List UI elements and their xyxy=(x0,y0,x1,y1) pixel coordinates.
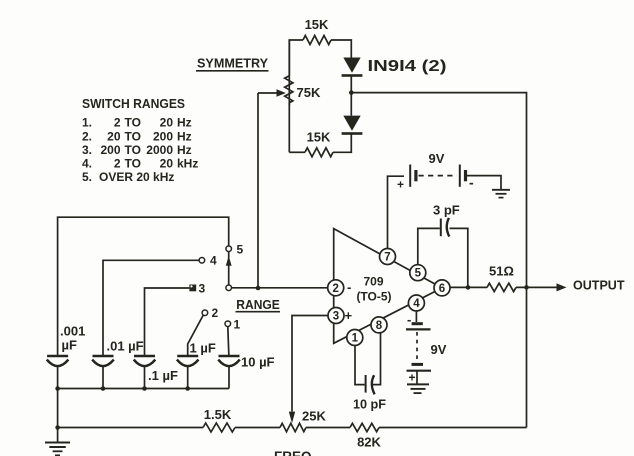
svg-text:200: 200 xyxy=(100,143,120,157)
svg-text:20: 20 xyxy=(160,157,174,171)
svg-text:3.: 3. xyxy=(82,143,92,157)
svg-text:-: - xyxy=(407,312,411,327)
svg-text:(TO-5): (TO-5) xyxy=(356,290,391,304)
svg-text:FREQ: FREQ xyxy=(274,449,312,456)
svg-text:2: 2 xyxy=(212,306,219,320)
svg-text:OVER 20 kHz: OVER 20 kHz xyxy=(99,170,174,184)
svg-text:1.: 1. xyxy=(82,116,92,130)
svg-text:.001: .001 xyxy=(60,324,85,339)
svg-text:7: 7 xyxy=(384,252,390,264)
svg-text:TO: TO xyxy=(125,143,141,157)
svg-text:SYMMETRY: SYMMETRY xyxy=(197,57,269,71)
svg-text:6: 6 xyxy=(439,283,445,295)
svg-text:-: - xyxy=(347,280,351,295)
svg-text:5: 5 xyxy=(415,268,422,280)
svg-text:4: 4 xyxy=(210,254,217,268)
svg-text:2: 2 xyxy=(114,157,121,171)
svg-text:SWITCH RANGES: SWITCH RANGES xyxy=(82,97,185,111)
svg-text:TO: TO xyxy=(125,130,141,144)
svg-text:TO: TO xyxy=(125,116,141,130)
svg-text:µF: µF xyxy=(62,338,77,353)
svg-text:4.: 4. xyxy=(82,157,92,171)
svg-text:2000: 2000 xyxy=(146,143,173,157)
svg-text:9V: 9V xyxy=(431,342,447,357)
svg-text:15K: 15K xyxy=(307,129,331,144)
svg-text:200: 200 xyxy=(153,130,173,144)
svg-text:2.: 2. xyxy=(82,130,92,144)
svg-text:Hz: Hz xyxy=(177,130,192,144)
svg-text:OUTPUT: OUTPUT xyxy=(573,279,625,293)
svg-text:82K: 82K xyxy=(357,435,381,450)
svg-text:+: + xyxy=(397,178,404,192)
svg-text:1.5K: 1.5K xyxy=(204,407,232,422)
svg-text:-: - xyxy=(469,175,474,191)
svg-text:1: 1 xyxy=(234,318,241,332)
svg-text:TO: TO xyxy=(125,157,141,171)
svg-text:2: 2 xyxy=(114,116,121,130)
svg-text:+: + xyxy=(409,371,416,385)
svg-text:3 pF: 3 pF xyxy=(433,203,460,218)
svg-text:1 µF: 1 µF xyxy=(190,341,216,356)
svg-text:Hz: Hz xyxy=(177,116,192,130)
svg-text:15K: 15K xyxy=(305,17,329,32)
svg-text:10 µF: 10 µF xyxy=(241,355,275,370)
svg-text:1: 1 xyxy=(352,333,359,345)
svg-text:3: 3 xyxy=(333,311,339,323)
svg-text:9V: 9V xyxy=(429,151,445,166)
svg-text:4: 4 xyxy=(413,298,420,310)
svg-text:2: 2 xyxy=(332,283,338,295)
svg-text:3: 3 xyxy=(199,282,206,296)
svg-text:51Ω: 51Ω xyxy=(489,264,514,279)
svg-text:kHz: kHz xyxy=(177,157,198,171)
svg-text:75K: 75K xyxy=(297,85,321,100)
svg-text:.1 µF: .1 µF xyxy=(148,368,178,383)
svg-text:709: 709 xyxy=(363,275,383,289)
svg-text:Hz: Hz xyxy=(177,143,192,157)
svg-text:8: 8 xyxy=(376,320,383,332)
svg-text:IN9I4 (2): IN9I4 (2) xyxy=(368,58,447,75)
svg-text:20: 20 xyxy=(160,116,174,130)
svg-text:.01 µF: .01 µF xyxy=(107,339,144,354)
svg-text:+: + xyxy=(345,308,353,323)
svg-text:RANGE: RANGE xyxy=(236,297,280,312)
svg-text:25K: 25K xyxy=(302,409,326,424)
svg-text:20: 20 xyxy=(107,130,121,144)
svg-text:5.: 5. xyxy=(82,170,92,184)
svg-text:10 pF: 10 pF xyxy=(353,397,386,412)
svg-text:5: 5 xyxy=(237,243,244,257)
